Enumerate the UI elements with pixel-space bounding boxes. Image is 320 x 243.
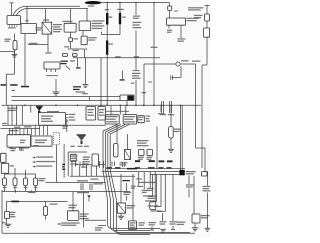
wire: [90, 166, 92, 176]
comb meter line3: [70, 175, 135, 177]
tick: [76, 67, 81, 68]
wire: [71, 166, 73, 176]
wire: [14, 34, 16, 41]
wire: [24, 34, 26, 86]
label ecu: [20, 140, 26, 144]
wire: [16, 105, 18, 125]
wire: [148, 174, 162, 207]
wire: [14, 50, 16, 54]
dash row: [139, 182, 156, 183]
label: [194, 15, 203, 18]
wire: [111, 105, 126, 115]
junction dots: [24, 105, 181, 107]
ground: [118, 216, 125, 219]
fuse F2: [205, 14, 210, 21]
ground: [160, 229, 166, 232]
comb meter line: [102, 171, 186, 173]
diag wire: [103, 125, 117, 132]
wire: [63, 144, 65, 178]
wire: [196, 64, 206, 172]
connector box: [73, 54, 78, 57]
wire bundle: [110, 134, 150, 234]
connector C1: [81, 36, 87, 45]
label air flow meter: [5, 39, 11, 42]
ground: [82, 85, 88, 88]
label coil: [10, 212, 16, 218]
label: [70, 60, 75, 61]
wire: [100, 58, 102, 106]
label: [151, 47, 158, 48]
wire: [55, 79, 57, 92]
wire bundle: [105, 132, 150, 231]
wire bundle: [103, 131, 160, 228]
wire ig node: [69, 48, 86, 51]
bus line 2: [12, 99, 121, 101]
label: [41, 116, 53, 122]
label: [109, 43, 113, 44]
switch contact: [1, 84, 7, 86]
label: [50, 204, 58, 205]
label: [115, 56, 120, 57]
label: [108, 17, 112, 18]
wire: [106, 25, 108, 41]
label: [24, 126, 31, 127]
wire main bus: [73, 57, 160, 59]
label: [187, 18, 200, 22]
wire: [188, 175, 190, 184]
wire: [158, 105, 165, 114]
ground: [168, 149, 174, 152]
fuse block 1: [105, 115, 119, 124]
capacitor: [167, 30, 172, 33]
wire: [6, 52, 14, 106]
injector resistor 2: [13, 174, 17, 192]
tick: [133, 70, 140, 72]
label row dark: [167, 160, 173, 162]
label: [137, 140, 149, 146]
label row dark2: [115, 167, 121, 168]
wire: [138, 172, 140, 186]
label: [28, 192, 36, 193]
label: [132, 73, 141, 79]
heater wire bundle: [85, 1, 101, 4]
wire: [14, 168, 16, 174]
wire: [181, 105, 183, 170]
label: [142, 92, 147, 93]
wire: [85, 219, 106, 221]
wire: [6, 219, 8, 225]
ground: [12, 54, 18, 57]
wire: [106, 110, 129, 112]
fuse block 3: [138, 116, 145, 123]
label: [8, 108, 18, 111]
connector pins: [168, 101, 174, 115]
switch contact: [10, 84, 17, 86]
wire: [135, 80, 137, 105]
label: [174, 129, 181, 133]
wire: [46, 182, 107, 184]
wire: [16, 9, 88, 17]
label comb meter: [127, 168, 137, 170]
wire: [119, 24, 121, 34]
label: [82, 93, 88, 94]
cig fuse: [114, 144, 119, 158]
wire: [126, 101, 128, 106]
wire: [154, 172, 156, 202]
injector resistor 3: [24, 174, 28, 192]
label: [36, 27, 43, 30]
wire: [180, 63, 195, 65]
wire: [0, 51, 15, 53]
label: [93, 183, 103, 184]
relay R1: [42, 22, 52, 34]
ground: [192, 228, 199, 231]
wire: [120, 213, 122, 216]
main relay: [79, 21, 91, 31]
wire: [13, 6, 80, 15]
label check connector: [133, 22, 142, 28]
ecu box: [7, 135, 31, 148]
diag wire: [105, 125, 121, 133]
wire: [30, 105, 32, 112]
label: [127, 205, 136, 209]
stub: [120, 71, 125, 81]
wire: [7, 201, 68, 203]
wire: [7, 105, 9, 125]
bottom bus: [2, 232, 195, 234]
wire: [126, 196, 128, 201]
wire: [106, 3, 108, 14]
label: [136, 178, 142, 179]
diag wire: [110, 125, 129, 135]
wire: [170, 138, 172, 149]
wire: [45, 216, 47, 220]
comp box: [139, 150, 145, 156]
edge box: [1, 153, 7, 162]
wire: [206, 21, 208, 28]
comb meter line top: [106, 168, 185, 170]
ground: [5, 224, 12, 227]
wire: [120, 174, 122, 203]
label noise filter: [124, 192, 132, 195]
label main relay: [92, 20, 105, 29]
relay box B: [98, 107, 106, 121]
wire: [102, 32, 121, 35]
label: [201, 215, 210, 218]
wire: [101, 2, 170, 4]
label row dark2: [148, 167, 155, 169]
wire: [10, 125, 48, 135]
wire: [98, 225, 106, 227]
wire: [143, 172, 145, 189]
wire: [151, 174, 166, 212]
label st: [61, 61, 68, 65]
caps row: [98, 161, 105, 168]
label: [77, 192, 89, 193]
wire: [126, 183, 128, 192]
ground: [205, 228, 211, 231]
label battery: [8, 27, 16, 28]
label: [99, 109, 105, 116]
label fl 0.3: [117, 9, 124, 10]
arrow label: [33, 161, 56, 163]
switch contact: [21, 86, 29, 88]
label: [2, 222, 6, 223]
wire: [45, 202, 47, 207]
label: [186, 184, 194, 187]
label: [138, 157, 144, 160]
label: [12, 90, 16, 91]
wire: [21, 105, 23, 125]
label heater: [88, 5, 94, 6]
wire: [135, 31, 137, 71]
label row dark2: [107, 167, 113, 168]
defogger box: [192, 214, 200, 223]
bus line: [12, 96, 121, 98]
wire: [70, 42, 72, 49]
wire: [86, 165, 88, 177]
wire: [145, 174, 157, 202]
wire: [119, 3, 121, 13]
main bus: [2, 104, 202, 106]
label: [181, 60, 189, 61]
fuse box: [70, 154, 76, 161]
capacitor: [171, 75, 173, 79]
label rear defog: [203, 186, 211, 192]
label: [122, 17, 126, 18]
ignition switch contacts: [44, 62, 60, 69]
connector pins: [160, 101, 166, 115]
label: [120, 162, 128, 165]
caps row: [123, 162, 125, 167]
box k2: [129, 221, 137, 230]
ecu box 2: [31, 136, 52, 146]
battery terminals: [9, 25, 17, 27]
wire: [46, 75, 58, 77]
wire: [68, 151, 87, 153]
dark blob: [73, 86, 81, 90]
label: [45, 52, 51, 53]
label: [160, 221, 167, 224]
label igniter2: [122, 180, 130, 181]
label: [88, 109, 95, 116]
connector blob: [179, 170, 184, 175]
wire: [193, 176, 195, 214]
wire: [156, 126, 158, 168]
label b-w: [29, 43, 38, 44]
wire bundle: [108, 133, 190, 232]
label: [53, 24, 62, 32]
bulb: [176, 62, 180, 66]
igniter box: [68, 211, 79, 221]
wire: [25, 170, 27, 174]
wire: [162, 213, 164, 221]
contact ticks: [47, 69, 56, 72]
label: [81, 167, 87, 168]
label: [133, 16, 140, 19]
label: [69, 205, 78, 209]
wire: [72, 192, 74, 211]
left edge wire: [1, 190, 3, 233]
wire: [84, 58, 86, 84]
relay small: [125, 150, 131, 160]
wire: [194, 223, 196, 228]
diag wire: [108, 125, 125, 134]
ground: [53, 92, 60, 95]
injector resistor 4: [34, 174, 38, 192]
battery B1: [7, 16, 21, 25]
label: [39, 178, 46, 181]
comb meter line2: [150, 174, 185, 176]
label: [76, 91, 86, 92]
wire: [28, 34, 48, 52]
defogger relay: [204, 28, 210, 37]
ignition coil: [5, 212, 10, 219]
wire: [153, 3, 155, 106]
junction dots: [106, 2, 154, 4]
wire: [86, 9, 88, 22]
wire: [45, 9, 47, 23]
wire: [5, 173, 36, 175]
label: [95, 227, 103, 230]
tick: [150, 227, 154, 231]
connector box: [63, 54, 68, 57]
cigarette lighter: [169, 127, 174, 139]
tick: [174, 10, 178, 12]
wire: [95, 166, 97, 176]
wire: [207, 171, 209, 186]
label row dark2: [159, 167, 164, 169]
label: [62, 126, 68, 129]
label: [131, 186, 136, 189]
label: [146, 116, 151, 122]
wire: [169, 10, 171, 18]
label: [19, 148, 25, 151]
wire: [66, 119, 68, 132]
wire: [144, 63, 176, 65]
junction bus: [2, 124, 106, 126]
wire: [75, 164, 92, 166]
label igniter: [80, 213, 89, 219]
wire: [169, 3, 171, 7]
wire: [56, 145, 58, 183]
label: [69, 114, 76, 121]
wire: [70, 32, 72, 38]
label fl 0.5: [105, 9, 109, 10]
wire: [70, 9, 72, 24]
fusible link FL1: [106, 13, 108, 25]
wire: [106, 55, 108, 106]
tick: [171, 226, 175, 230]
arrow to tach: [87, 195, 90, 201]
label ac comp: [147, 188, 154, 191]
small box: [202, 172, 208, 177]
edge box 2: [1, 163, 14, 173]
wire: [207, 193, 209, 229]
injector resistor 1: [3, 174, 7, 192]
splice: [11, 201, 19, 203]
ignition switch SW1: [64, 23, 76, 32]
relay box G: [92, 154, 99, 166]
wire: [84, 49, 86, 58]
label row dark2: [167, 167, 172, 169]
label: [186, 171, 196, 174]
pin ticks: [66, 115, 69, 122]
label row dark: [135, 160, 140, 162]
wire: [172, 66, 181, 77]
dark mark: [62, 164, 65, 170]
comp box: [147, 150, 153, 156]
wire: [67, 152, 69, 176]
wire: [116, 124, 118, 144]
fusible link FL2: [119, 13, 121, 24]
label: [188, 7, 204, 10]
wire: [77, 58, 79, 67]
label defog: [192, 61, 201, 62]
switch arm: [66, 66, 70, 70]
noise filter: [178, 38, 186, 41]
connector blob: [127, 96, 133, 101]
wire: [180, 25, 182, 38]
label: [9, 130, 18, 131]
distributor pins: [81, 184, 92, 191]
wire: [127, 134, 129, 150]
arrow label: [33, 156, 54, 158]
label ig: [64, 46, 69, 47]
wire: [143, 64, 145, 105]
relay box: [167, 18, 186, 25]
label: [134, 56, 139, 57]
wire: [202, 37, 207, 168]
wire: [188, 189, 190, 198]
label: [47, 111, 59, 112]
label row dark: [149, 160, 155, 162]
label: [74, 38, 79, 39]
label: [33, 145, 39, 146]
label: [73, 50, 79, 51]
wire: [149, 172, 151, 188]
ignition main fuse box: [21, 24, 37, 34]
label ignition sw: [63, 21, 73, 22]
main relay 2: [117, 203, 125, 213]
wire: [83, 192, 85, 228]
tick: [88, 97, 90, 101]
wire: [6, 202, 8, 212]
label b-w: [2, 123, 7, 124]
label: [149, 222, 157, 225]
caps row: [112, 162, 115, 167]
resistor: [13, 41, 17, 50]
tick: [16, 190, 32, 192]
ecu pin ticks: [10, 147, 28, 150]
wire: [170, 105, 172, 126]
wire: [172, 174, 174, 221]
fuse block 2: [123, 115, 137, 124]
solenoid symbol: [36, 106, 43, 113]
arrow label cold start: [58, 222, 80, 225]
arrow label: [33, 166, 53, 168]
ballast resistor: [44, 206, 48, 215]
label row: [70, 146, 89, 147]
label: [139, 222, 146, 226]
label: [43, 19, 49, 20]
wire bus: [2, 191, 130, 193]
label dist: [90, 179, 98, 180]
wire: [1, 128, 41, 130]
label: [142, 190, 148, 193]
tick: [148, 81, 152, 83]
vsv box: [39, 113, 66, 126]
